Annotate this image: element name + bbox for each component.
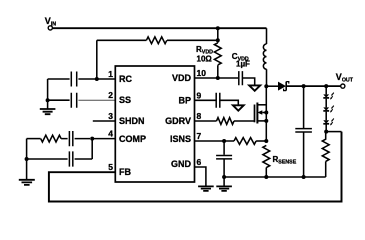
resistor RCOMP — [41, 135, 61, 142]
wire drain node to diode — [266, 85, 278, 87]
pin number 3 — [108, 111, 113, 121]
wire pin 8 row — [195, 120, 217, 122]
node VIN tap — [216, 26, 220, 30]
svg-text:RSENSE: RSENSE — [273, 155, 297, 166]
wire RC vertical down to pin 1 — [96, 40, 98, 79]
wire BP cap to ground — [220, 100, 239, 105]
label RSENSE — [273, 155, 297, 166]
capacitor CVDD — [239, 71, 243, 85]
svg-text:10Ω: 10Ω — [197, 55, 213, 64]
node pin10 tap — [216, 76, 220, 80]
node COMP ground column — [25, 157, 29, 161]
LED D3 — [323, 106, 334, 113]
capacitor CBP — [216, 93, 220, 108]
wire VIN rail — [52, 27, 266, 29]
ground (BP) open triangle — [233, 105, 244, 110]
wire RVDD top — [217, 40, 219, 43]
wire COMP ground column — [26, 139, 28, 180]
wire VIN rail corner down to inductor — [266, 28, 268, 44]
svg-text:SHDN: SHDN — [119, 116, 145, 126]
svg-text:VIN: VIN — [45, 16, 56, 28]
svg-text:GDRV: GDRV — [165, 116, 191, 126]
wire RISNS to source column — [256, 140, 266, 142]
label RVDD 10ohm — [196, 45, 213, 63]
svg-text:2: 2 — [108, 90, 113, 100]
pin number 6 — [197, 157, 202, 167]
node caps common — [46, 98, 50, 102]
wire pin 9 row — [195, 99, 216, 101]
svg-text:8: 8 — [197, 111, 202, 121]
node LED bottom / FB tap — [324, 130, 328, 134]
terminal VIN — [45, 16, 56, 30]
ground (pin 6 GND) — [198, 186, 214, 191]
pin number 5 — [108, 162, 113, 172]
pin number 10 — [197, 68, 207, 78]
svg-text:GND: GND — [171, 159, 192, 169]
svg-text:COMP: COMP — [119, 134, 146, 144]
wire COMP branchB vertical — [91, 139, 93, 159]
wire COUT column bottom — [303, 132, 305, 177]
capacitor CCOMP2 — [69, 151, 72, 166]
wire COMP branchB row — [27, 158, 93, 160]
node Q1 body — [264, 111, 268, 115]
capacitor CSS (soft start) — [71, 93, 76, 108]
wire ISNS gnd stub — [223, 177, 225, 186]
wire COMP branchA corner — [27, 138, 41, 140]
wire RFB bottom — [325, 161, 327, 177]
node RSENSE gnd rail — [264, 175, 268, 179]
node ISNS cap tap — [222, 139, 226, 143]
wire ISNS cap lead — [223, 141, 225, 155]
wire pin 10 row — [195, 77, 239, 79]
wire VIN tap to RC resistor row — [217, 28, 219, 40]
svg-text:5: 5 — [108, 162, 113, 172]
wire COUT column top — [303, 86, 305, 128]
node pin1 RC — [95, 77, 99, 81]
inductor L1 — [263, 44, 266, 69]
node Q1 source — [264, 119, 268, 123]
resistor RGATE — [217, 118, 234, 125]
resistor RT (RC timing) — [146, 37, 166, 44]
pin number 7 — [197, 131, 202, 141]
resistor RVDD — [214, 43, 221, 65]
svg-text:ISNS: ISNS — [170, 134, 191, 144]
wire FB tap to right column — [326, 131, 341, 133]
svg-text:FB: FB — [119, 167, 131, 177]
ground (CISNS) — [216, 186, 232, 191]
wire RC row left segment — [97, 39, 147, 41]
node ISNS cap gnd — [222, 175, 226, 179]
capacitor CISNS — [216, 156, 232, 159]
node source/RSENSE/ISNS — [264, 139, 268, 143]
node RC/RVDD junction — [216, 38, 220, 42]
ground (CT/CSS) — [40, 109, 56, 114]
svg-text:10: 10 — [197, 68, 207, 78]
wire pin 6 — [195, 167, 206, 186]
resistor RFB — [322, 132, 329, 162]
wire drain-source column — [265, 86, 267, 141]
svg-text:VDD: VDD — [172, 73, 192, 83]
svg-text:9: 9 — [197, 90, 202, 100]
node COMP split — [90, 137, 94, 141]
wire left column caps — [47, 79, 49, 109]
wire LED column — [325, 86, 327, 132]
svg-text:VOUT: VOUT — [336, 72, 354, 84]
ground (CVDD) open triangle — [249, 85, 260, 90]
wire pin 4 COMP row — [61, 138, 115, 140]
resistor RISNS — [234, 138, 256, 145]
LED D4 — [323, 119, 334, 126]
wire RC row right segment — [167, 39, 218, 41]
wire pin 7 row — [195, 140, 235, 142]
pin number 1 — [108, 69, 113, 79]
capacitor CCOMP1 — [69, 131, 72, 146]
wire inductor bottom — [266, 69, 268, 86]
svg-text:1: 1 — [108, 69, 113, 79]
ground (COMP network) — [19, 180, 35, 185]
node COUT gnd rail — [302, 175, 306, 179]
svg-text:7: 7 — [197, 131, 202, 141]
node cout tap — [302, 84, 306, 88]
wire pin 3 SHDN stub — [93, 120, 116, 122]
svg-text:6: 6 — [197, 157, 202, 167]
wire bottom rail — [224, 176, 326, 178]
transistor Q1 NMOS — [255, 103, 267, 124]
wire pin 1 row — [48, 78, 116, 80]
wire VOUT rail — [286, 85, 340, 87]
wire FB return loop — [49, 132, 342, 202]
wire RSENSE bottom — [265, 168, 267, 178]
pin number 9 — [197, 90, 202, 100]
svg-text:BP: BP — [178, 95, 191, 105]
pin number 2 — [108, 90, 113, 100]
wire pin 2 row — [48, 99, 116, 101]
wire gate — [234, 120, 254, 122]
wire ISNS cap bottom — [223, 159, 225, 177]
svg-text:SS: SS — [119, 95, 131, 105]
svg-text:3: 3 — [108, 111, 113, 121]
capacitor CT (on RC pin) — [71, 72, 76, 87]
svg-text:RC: RC — [119, 74, 132, 84]
svg-text:4: 4 — [108, 129, 113, 139]
label CVDD 1uF — [232, 52, 250, 69]
LED D2 — [323, 93, 334, 100]
resistor RSENSE — [263, 145, 270, 167]
wire RVDD bottom — [217, 65, 219, 78]
capacitor COUT — [295, 129, 312, 132]
IC U1 TPS40210 — [115, 66, 194, 182]
wire CVDD to ground — [242, 78, 254, 85]
svg-text:1µF: 1µF — [236, 60, 250, 69]
node switch/drain — [264, 84, 268, 88]
pin number 8 — [197, 111, 202, 121]
terminal VOUT — [336, 72, 354, 88]
diode D1 Schottky — [278, 82, 289, 91]
node led tap — [324, 84, 328, 88]
pin number 4 — [108, 129, 113, 139]
